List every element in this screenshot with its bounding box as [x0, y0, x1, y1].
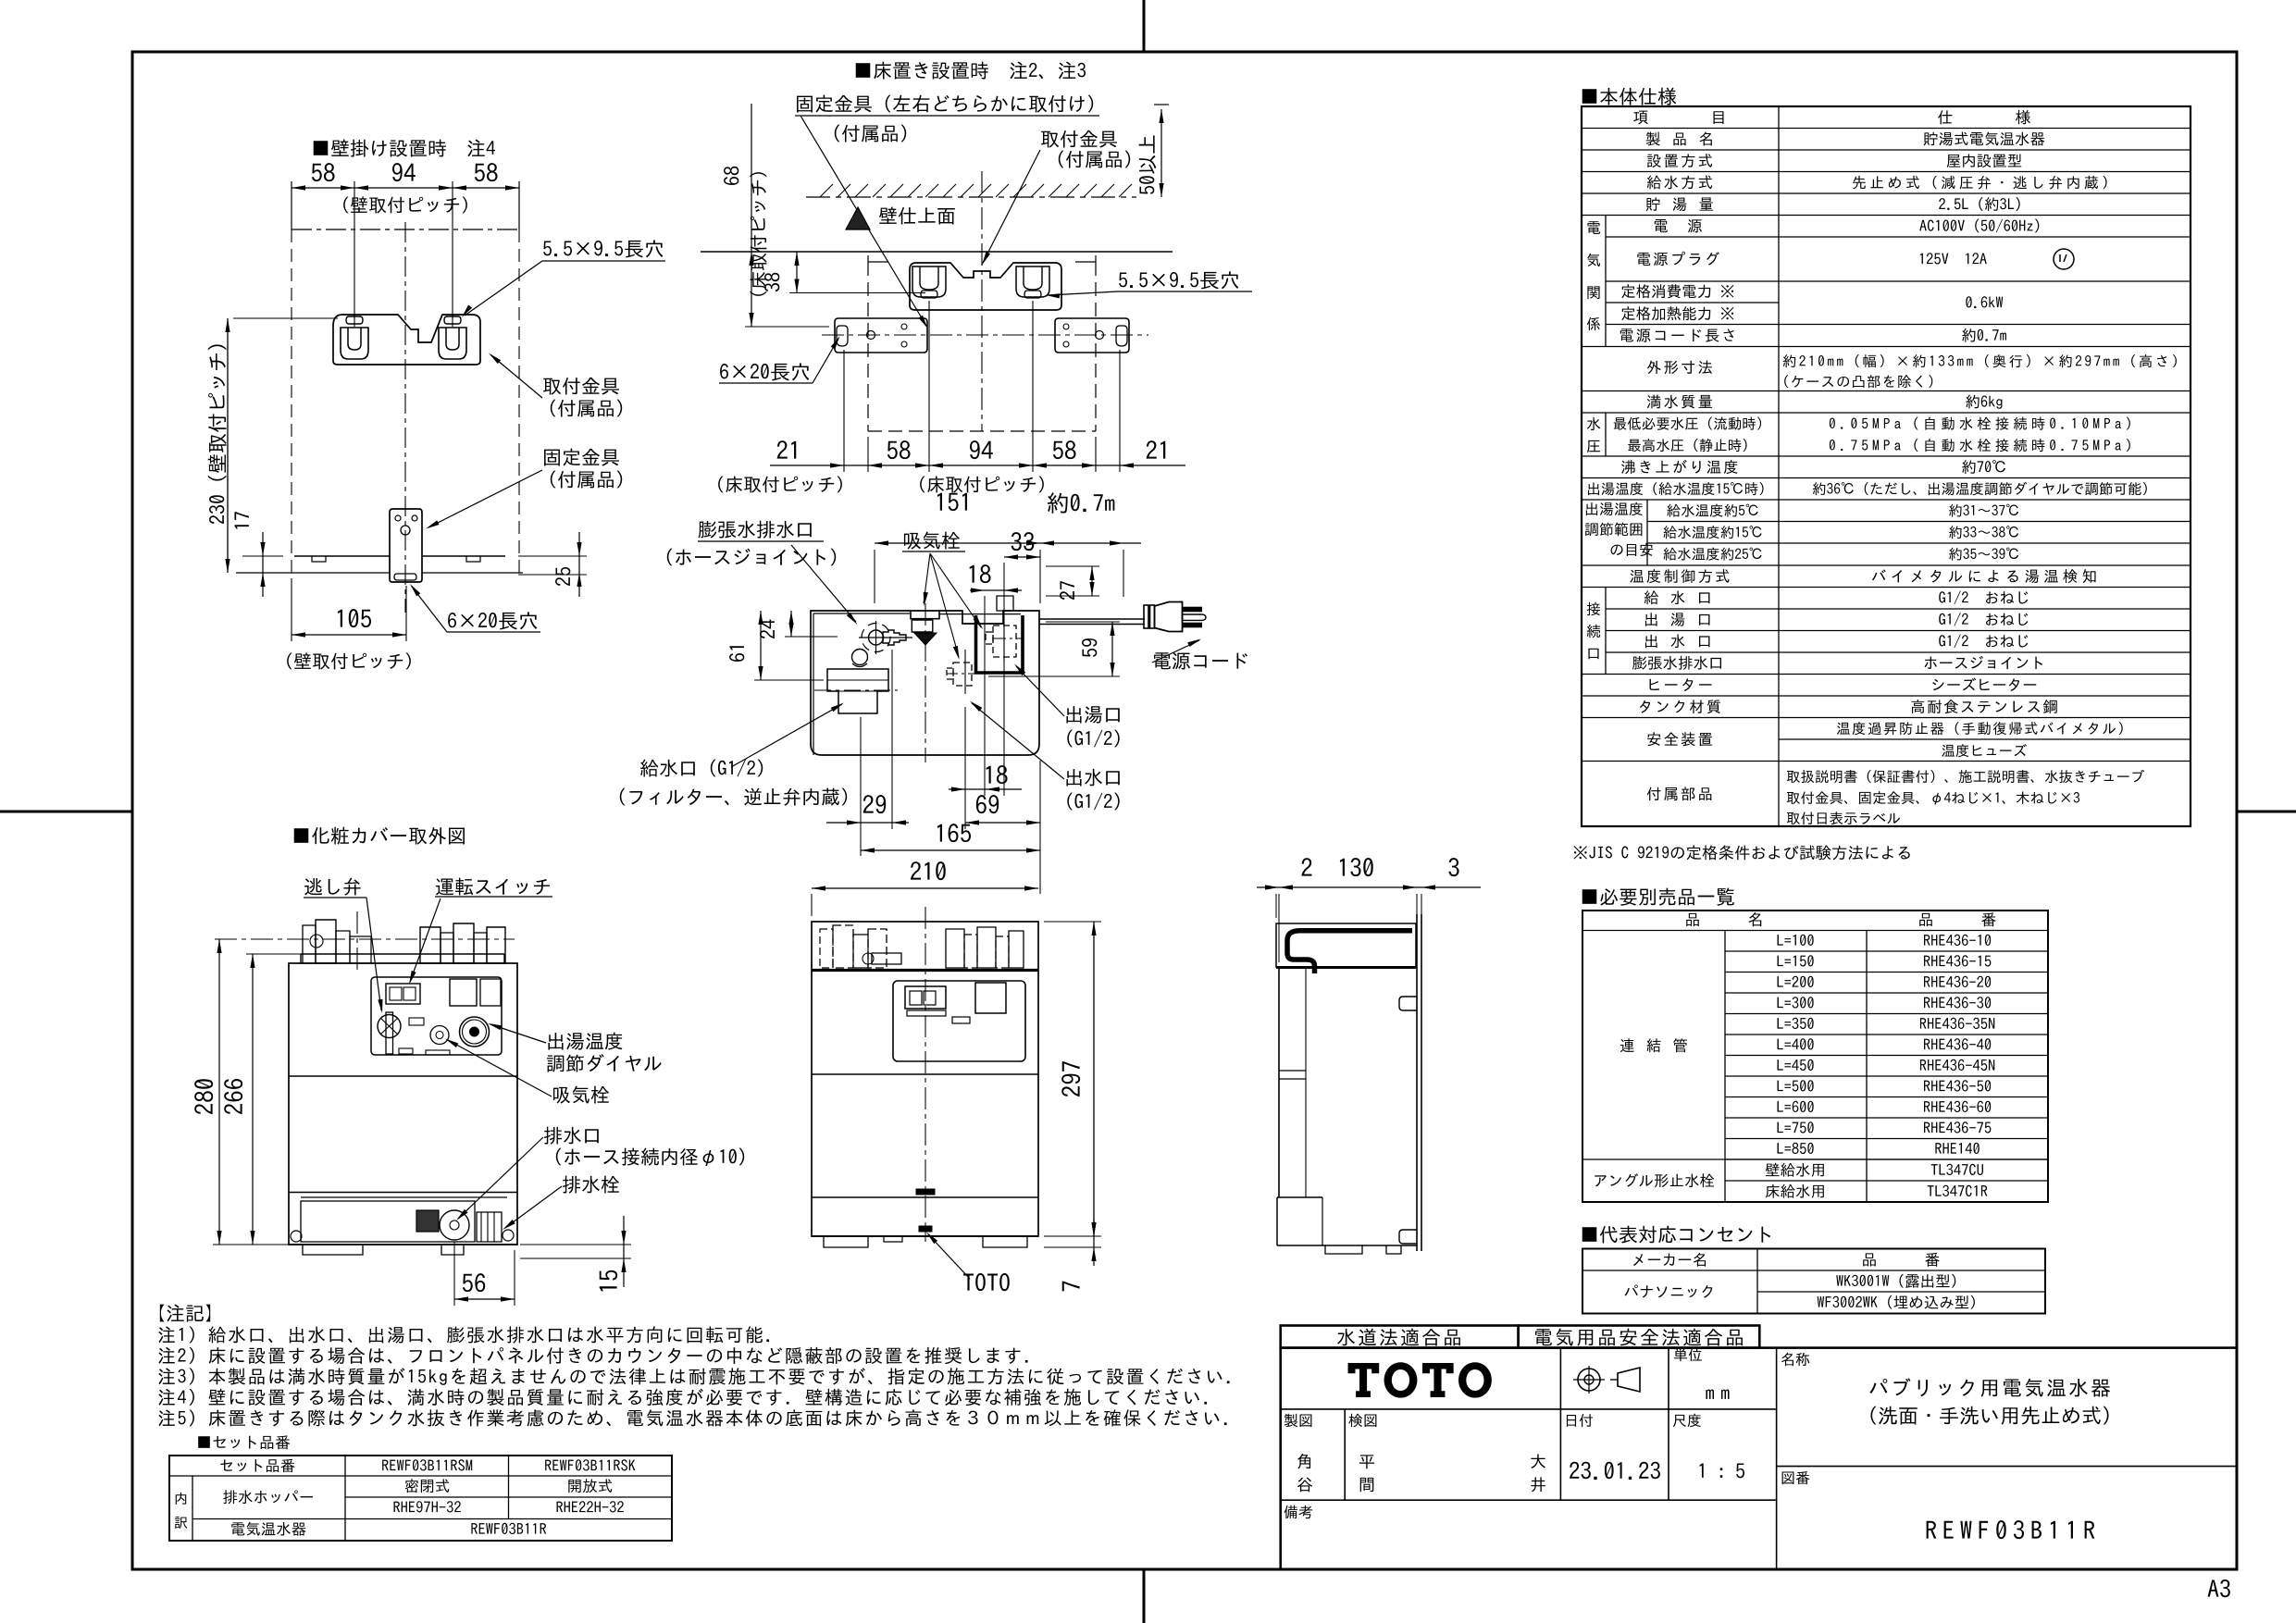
wall mount dim 58-94-58 labels	[312, 163, 335, 181]
top view dim 24	[760, 620, 775, 639]
options: angle stop valve rows	[1595, 1173, 1714, 1187]
dim 230 wall pitch	[208, 344, 227, 524]
spec row: water supply type	[1647, 175, 1712, 189]
top view unit outline	[811, 611, 1039, 755]
top center trim mark	[1143, 0, 1146, 52]
spec row: inlet	[1644, 590, 1710, 604]
top view dim 165	[937, 824, 971, 842]
cover view mid seam	[289, 1075, 517, 1077]
spec row: tank capacity	[1646, 197, 1713, 211]
outlet header	[1633, 1253, 1706, 1267]
spec row: power plug	[1637, 252, 1719, 266]
spec group label: electrical	[1587, 221, 1600, 234]
top view dim 29	[863, 795, 887, 813]
label air intake (cover)	[553, 1086, 609, 1104]
label air intake plug	[904, 532, 960, 550]
spec row: accessories	[1647, 787, 1712, 800]
spec group label: connections	[1587, 602, 1600, 615]
temp dial	[460, 1017, 490, 1047]
seizu cell (drafter)	[1285, 1414, 1312, 1427]
front view top seam thick	[812, 969, 1038, 972]
wall mount pitch extension lines	[291, 181, 292, 229]
label water outlet	[1066, 769, 1119, 787]
note 1	[158, 1326, 769, 1343]
case lip line right	[939, 613, 1021, 615]
side view body	[1278, 967, 1280, 1197]
set table title	[198, 1435, 290, 1449]
mounting bracket (wall)	[333, 315, 480, 365]
sheet size label A3	[2208, 1580, 2230, 1597]
front view outline	[812, 922, 1038, 1236]
spec row: max pressure	[1628, 439, 1746, 452]
spec row: rated heating capacity	[1621, 306, 1733, 320]
label fixing bracket	[544, 449, 619, 466]
note 5	[158, 1409, 1226, 1426]
front view mid seam	[812, 1073, 1038, 1075]
top view dim 69	[976, 795, 999, 813]
cover dim 15	[600, 1270, 617, 1292]
cover view bottom section	[289, 1192, 517, 1194]
top view dim 59	[1082, 638, 1097, 657]
front view lower seam and marks	[916, 1189, 935, 1195]
label 6x20 slot (wall)	[448, 612, 537, 629]
spec row: water outlet	[1645, 635, 1710, 649]
hot water outlet with bracket	[976, 615, 1024, 673]
front view feet	[812, 1235, 1038, 1237]
unit dashed outline (floor)	[867, 262, 869, 431]
set table texts	[220, 1459, 294, 1472]
spec row: temp control	[1630, 569, 1729, 583]
side view back panel	[1416, 914, 1418, 1251]
label drain plug	[563, 1176, 619, 1194]
top view centerline	[925, 603, 926, 762]
JIS note	[1574, 845, 1910, 860]
top view dim 33	[1011, 532, 1035, 551]
scale cell	[1673, 1414, 1701, 1428]
label drain port	[544, 1127, 599, 1145]
notes title	[160, 1305, 210, 1322]
spec row: product name	[1646, 132, 1712, 146]
outlet rows	[1625, 1285, 1713, 1298]
air intake knob	[430, 1026, 449, 1045]
top view dim 18 upper	[970, 564, 991, 583]
spec row: tank material	[1640, 700, 1720, 713]
air intake recess notch	[911, 611, 939, 619]
dim 25	[555, 567, 570, 586]
expansion drain fitting	[869, 630, 884, 645]
spec group label: water pressure	[1587, 417, 1600, 430]
air intake funnel	[912, 620, 933, 632]
case lip line left	[813, 613, 910, 614]
bottom center trim mark	[1143, 1569, 1146, 1623]
front view top fittings	[820, 929, 833, 968]
water outlet fitting	[953, 663, 972, 686]
wall mount vertical dashed edges	[291, 229, 292, 573]
label expansion drain port	[699, 521, 812, 539]
outlet table grid	[1582, 1249, 2045, 1314]
side view bottom	[1277, 1196, 1322, 1198]
fixing plates (floor)	[835, 318, 927, 353]
unit cell	[1674, 1348, 1702, 1361]
spec row: boiling temp	[1621, 460, 1737, 474]
label TOTO nameplate	[963, 1273, 1010, 1291]
unit bottom edge line	[236, 572, 390, 574]
panel small parts	[409, 1018, 424, 1025]
side view dims 2-130-3	[1301, 858, 1311, 875]
water inlet tee fitting	[827, 669, 888, 713]
spec row: outlet temp	[1588, 482, 1764, 495]
cover view top pipes	[215, 938, 515, 940]
side view top band	[1276, 923, 1416, 967]
certification label: water law	[1281, 1326, 1519, 1348]
cover view feet	[289, 1244, 517, 1245]
cover view outline	[289, 963, 517, 1245]
note 3	[158, 1368, 1229, 1385]
label fixing bracket floor	[797, 95, 1093, 113]
front view dim 7	[1062, 1282, 1080, 1292]
spec row: cord length	[1620, 328, 1734, 341]
spec row: supply 25C	[1663, 548, 1761, 561]
side view dim extension lines	[1275, 894, 1277, 918]
kenzu cell (checker)	[1348, 1414, 1376, 1427]
top view dim 27	[1060, 581, 1074, 600]
relief valve handle	[378, 1015, 401, 1038]
certification label: electrical appliance law	[1519, 1326, 1760, 1348]
wall mount horizontal centerline	[292, 229, 519, 230]
wall mount view title	[314, 140, 495, 157]
label mounting bracket	[543, 378, 619, 395]
label power cord	[1154, 652, 1247, 669]
wall mount top dim line	[292, 187, 519, 189]
front view dim 210	[911, 861, 946, 880]
dim 68 floor pitch	[724, 167, 738, 185]
spec row: supply 15C	[1663, 526, 1761, 539]
top view dim 18 lower	[987, 765, 1008, 784]
cover dim 266	[224, 1079, 242, 1114]
spec row: installation type	[1647, 154, 1712, 167]
spec group label: temp adjustment range	[1586, 502, 1643, 516]
bracket hook slots	[341, 328, 368, 359]
spec table grid	[1582, 106, 2191, 826]
bracket slotted holes 5.5x9.5	[346, 316, 363, 324]
side view back clips	[1399, 997, 1417, 1010]
plate centerline (floor)	[822, 334, 1148, 336]
dim 50+ label	[1139, 135, 1157, 193]
outlet table title	[1582, 1226, 1770, 1244]
label mounting bracket floor	[1041, 130, 1117, 148]
spec row: heater	[1650, 678, 1712, 691]
top view dim extension lines	[874, 550, 875, 603]
remarks cell	[1285, 1505, 1312, 1518]
front view dim 297	[1061, 1061, 1080, 1096]
top view dim 151 / 0.7m	[937, 493, 967, 511]
spec row: supply 5C	[1667, 504, 1757, 517]
options header	[1686, 912, 1761, 926]
label water inlet	[640, 760, 763, 777]
label 5.5x9.5 slot	[543, 240, 663, 257]
top view dim 61	[729, 646, 744, 662]
floor mount bottom dim	[777, 440, 797, 458]
dim 17	[234, 512, 248, 528]
left center trim mark	[0, 811, 132, 813]
floor bracket hook slots	[912, 266, 946, 297]
set table grid	[169, 1456, 672, 1541]
spec row: power source	[1655, 219, 1702, 232]
options table title	[1582, 887, 1734, 905]
label outlet temp dial	[548, 1033, 622, 1050]
spec table title	[1582, 88, 1676, 105]
floor mount view title	[856, 62, 1086, 80]
power cord and plug	[1039, 618, 1145, 620]
note 4	[158, 1389, 1207, 1406]
note 2	[158, 1347, 1027, 1364]
wall surface symbol triangle	[846, 207, 870, 229]
spec row: safety devices	[1647, 732, 1712, 746]
front view centerline	[925, 907, 926, 1242]
label 5.5x9.5 slot (floor)	[1119, 271, 1238, 289]
spec row: full weight	[1647, 395, 1712, 409]
spec row: rated power consumption	[1621, 284, 1733, 298]
cover removed view title	[294, 827, 465, 845]
spec row: min pressure	[1614, 417, 1761, 430]
spec table header row	[1633, 111, 1723, 125]
name cell	[1781, 1353, 1809, 1366]
label 6x20 slot (floor)	[720, 363, 809, 380]
mounting bracket top view (floor)	[910, 263, 1061, 310]
floor bracket slotted holes	[921, 291, 937, 298]
right center trim mark	[2237, 811, 2296, 813]
label hot outlet	[1066, 706, 1119, 724]
side view power cord	[1287, 931, 1412, 973]
spec row: dimensions	[1647, 361, 1712, 375]
label relief valve	[304, 878, 360, 896]
TOTO logo	[1348, 1362, 1492, 1397]
label operation switch	[436, 878, 550, 896]
fixing bracket plate (wall)	[390, 509, 422, 582]
cover view panel	[371, 977, 502, 1055]
third angle projection symbol	[1578, 1369, 1600, 1391]
options table grid	[1582, 911, 2048, 1202]
unit centerline (floor)	[981, 171, 983, 431]
dim 105	[338, 609, 371, 627]
unit bottom flange line	[294, 555, 390, 557]
floor dim extension lines	[843, 350, 845, 472]
spec row: expansion drain	[1632, 656, 1721, 670]
drawing number cell	[1782, 1471, 1810, 1484]
wall finished surface hatched line	[806, 196, 1136, 198]
unit top line (floor view)	[701, 251, 1173, 253]
cover dim 280	[194, 1079, 213, 1114]
date cell	[1567, 1414, 1593, 1427]
dim 38	[764, 273, 779, 291]
title block frame	[1281, 1348, 2237, 1569]
options: renketsukan rows	[1620, 1038, 1687, 1052]
cover view centerline	[356, 911, 358, 972]
front control panel	[893, 981, 1025, 1061]
spec row: hot outlet	[1645, 613, 1710, 626]
wall mount vertical centerline	[404, 222, 406, 613]
plug symbol	[2054, 249, 2074, 269]
cover dim 56	[463, 1273, 485, 1292]
